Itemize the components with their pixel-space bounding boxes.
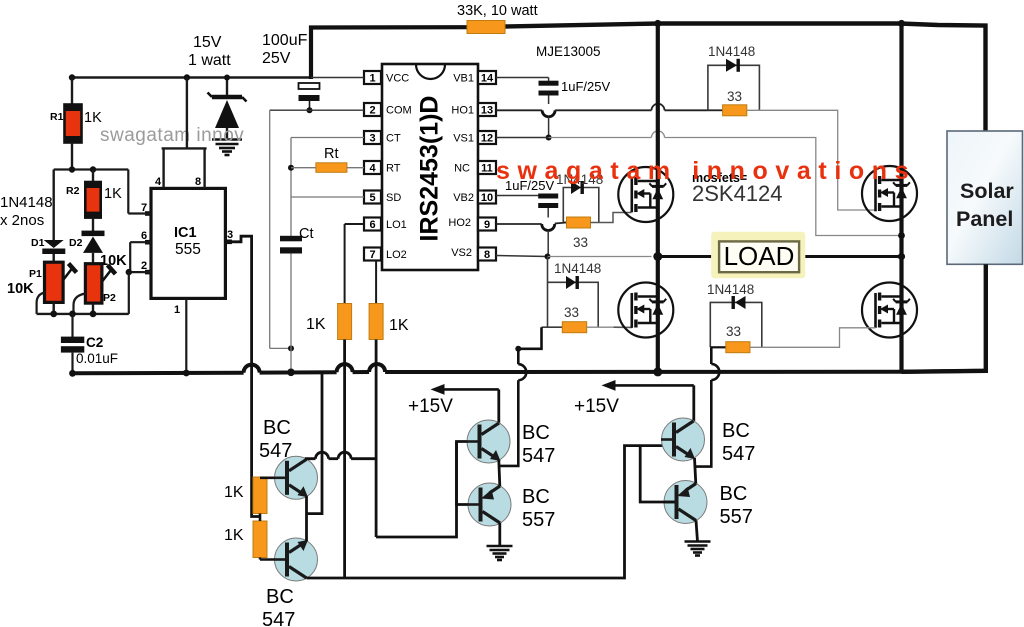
resistor 33K 10 watt	[457, 3, 538, 34]
svg-text:1: 1	[369, 73, 375, 85]
pots bottom rail y=313.9	[37, 311, 129, 318]
svg-text:P2: P2	[103, 292, 116, 304]
svg-text:1N4148: 1N4148	[708, 44, 755, 59]
svg-text:33: 33	[727, 89, 742, 104]
diode 1N4148 + resistor 33 network (M2 gate)	[708, 44, 760, 116]
svg-text:HO2: HO2	[448, 217, 471, 229]
wire base tie vertical right block	[640, 446, 674, 502]
svg-text:547: 547	[262, 609, 295, 627]
wire +15V to collector	[497, 389, 500, 423]
mosfet M3 bottom-left	[618, 283, 673, 338]
svg-text:CT: CT	[386, 133, 401, 145]
555 pins 4 and 8 bridge	[155, 78, 207, 189]
svg-text:+15V: +15V	[408, 396, 453, 417]
svg-text:+15V: +15V	[574, 396, 619, 417]
svg-text:BC: BC	[266, 586, 294, 608]
svg-text:LO2: LO2	[386, 249, 407, 261]
resistor R1 1K	[50, 78, 102, 170]
svg-text:10: 10	[481, 192, 493, 204]
wire LOAD right	[805, 255, 901, 258]
wire HO1 pin13	[496, 104, 708, 110]
wire VB2 pin10	[496, 195, 548, 197]
wire emitters junction right	[695, 458, 696, 484]
555 pin 6 wire	[130, 230, 151, 272]
chip pin boxes left	[364, 71, 381, 261]
wire M4 gate	[750, 328, 876, 348]
wire COM pin2	[270, 110, 364, 351]
transistor BC547 right	[661, 418, 755, 465]
resistor 1K on LO1	[306, 224, 364, 578]
wire +15V to collector right	[692, 385, 695, 421]
wire collector bottom-left BC547 long rail y=578	[307, 446, 673, 578]
svg-text:12: 12	[481, 133, 493, 145]
label 1N4148 x 2nos	[0, 194, 53, 229]
node dot bus/bridge	[653, 367, 662, 376]
svg-text:557: 557	[720, 506, 753, 528]
svg-text:BC: BC	[263, 417, 291, 439]
svg-text:R1: R1	[50, 111, 64, 123]
svg-text:IRS2453(1)D: IRS2453(1)D	[416, 96, 444, 242]
wire VS1 pin12	[496, 131, 905, 239]
svg-text:5: 5	[369, 192, 375, 204]
wire BC557 collector to ground	[498, 523, 501, 546]
svg-text:7: 7	[369, 249, 375, 261]
wire to D1	[54, 170, 129, 241]
diode 1N4148 + resistor 33 network (M4 gate)	[707, 282, 762, 353]
svg-text:4: 4	[155, 176, 162, 188]
zener diode 15V	[208, 75, 247, 139]
svg-text:LO1: LO1	[386, 219, 407, 231]
capacitor C2 0.01uF	[61, 314, 118, 377]
node dot 555 supply	[184, 74, 190, 80]
svg-text:Ct: Ct	[299, 226, 314, 242]
node dot R1 top	[69, 74, 75, 80]
mosfet M1 2SK4124 top-left	[618, 167, 673, 222]
label MJE13005	[536, 44, 601, 59]
svg-text:BC: BC	[522, 422, 550, 444]
svg-text:33K, 10 watt: 33K, 10 watt	[457, 3, 538, 19]
watermark swagatam innov	[100, 125, 244, 146]
capacitor Ct	[280, 226, 314, 372]
svg-text:1K: 1K	[224, 484, 244, 501]
wire emitters junction middle	[499, 460, 500, 486]
wire solar panel bottom	[902, 264, 986, 372]
wire VCC rail y=77.5	[72, 76, 311, 79]
svg-text:547: 547	[259, 440, 292, 462]
svg-text:9: 9	[484, 219, 490, 231]
svg-text:555: 555	[175, 241, 201, 258]
svg-text:547: 547	[522, 445, 555, 467]
capacitor 1uF/25V upper	[539, 79, 611, 104]
label 100uF 25V	[262, 32, 308, 67]
svg-text:BC: BC	[722, 420, 750, 442]
mosfet M2 top-right	[862, 166, 917, 221]
svg-text:Rt: Rt	[324, 146, 339, 162]
svg-text:LOAD: LOAD	[724, 241, 795, 271]
wire LO2 vertical lower + route to middle driver	[376, 442, 483, 538]
wire right bus vertical x=901.5	[898, 20, 905, 372]
svg-text:2: 2	[141, 260, 147, 272]
svg-text:COM: COM	[386, 105, 412, 117]
red watermark swagatam innovations	[496, 157, 916, 185]
svg-text:D2: D2	[69, 237, 83, 249]
wire HO2 pin9	[496, 223, 567, 225]
svg-text:SD: SD	[386, 192, 401, 204]
wire VCC pin1	[311, 77, 364, 79]
diode D2	[69, 231, 127, 269]
svg-text:1 watt: 1 watt	[188, 52, 231, 69]
svg-text:D1: D1	[31, 237, 45, 249]
mosfet M4 bottom-right	[862, 283, 917, 338]
svg-text:swagatam innovations: swagatam innovations	[496, 157, 916, 185]
IC1 555 box	[151, 188, 225, 298]
wire bus tap x=322	[307, 372, 323, 513]
wire M4 network feed from right driver	[695, 347, 720, 466]
transistor BC547 left-top	[259, 417, 318, 499]
svg-text:1K: 1K	[389, 317, 409, 334]
IC IRS2453(1)D body	[382, 64, 478, 270]
svg-text:VS2: VS2	[451, 247, 472, 259]
chip pin names	[386, 73, 412, 262]
svg-text:R2: R2	[66, 185, 80, 197]
wire hop cap lead over HO2	[542, 224, 555, 257]
svg-text:x 2nos: x 2nos	[0, 212, 44, 229]
svg-text:1K: 1K	[84, 110, 102, 126]
wire BC557 right collector to ground	[696, 521, 698, 542]
resistor 1K on LO2	[369, 261, 409, 538]
svg-text:1N4148: 1N4148	[554, 261, 601, 276]
svg-text:25V: 25V	[262, 50, 291, 67]
svg-text:33: 33	[573, 235, 588, 250]
capacitor 100uF	[299, 83, 320, 113]
svg-text:15V: 15V	[193, 34, 222, 51]
diode 1N4148 + resistor 33 network (M3 gate)	[542, 257, 602, 333]
svg-text:1K: 1K	[306, 316, 326, 333]
wire VS2 pin8	[496, 254, 652, 260]
node dot load right	[898, 253, 905, 260]
wire top bus right of 33K	[505, 24, 986, 132]
wire VB1 pin14	[496, 78, 549, 82]
svg-text:2: 2	[369, 105, 375, 117]
transistor BC557 right	[664, 481, 753, 529]
pot P2 10K	[74, 264, 117, 314]
svg-text:557: 557	[522, 509, 555, 531]
svg-text:547: 547	[722, 443, 755, 465]
svg-text:RT: RT	[386, 163, 401, 175]
transistor BC547 left-bottom	[262, 538, 318, 627]
svg-text:swagatam innov: swagatam innov	[100, 125, 244, 146]
node dot load left	[653, 252, 662, 261]
svg-text:IC1: IC1	[174, 225, 197, 241]
wire SD pin5	[291, 196, 364, 198]
svg-text:8: 8	[195, 176, 201, 188]
svg-text:Panel: Panel	[956, 207, 1013, 231]
svg-text:33: 33	[564, 305, 579, 320]
chip pin numbers left	[369, 73, 376, 262]
svg-text:NC: NC	[454, 163, 470, 175]
svg-text:C2: C2	[86, 335, 103, 350]
wire left bus vertical x=658	[654, 20, 661, 372]
svg-text:VCC: VCC	[386, 73, 409, 85]
svg-text:100uF: 100uF	[262, 32, 308, 49]
svg-text:14: 14	[481, 73, 494, 85]
svg-text:VB2: VB2	[453, 192, 474, 204]
svg-text:8: 8	[484, 249, 490, 261]
diode 1N4148 + resistor 33 network (M1 gate)	[556, 172, 603, 250]
+15V arrow middle	[408, 384, 499, 417]
555 pin 7 wire	[128, 170, 151, 215]
ground right driver	[685, 542, 711, 556]
555 pin 1 wire	[174, 298, 190, 376]
+15V arrow right	[574, 380, 694, 417]
svg-text:HO1: HO1	[451, 105, 474, 117]
node line y=169.5	[54, 166, 129, 172]
svg-text:10K: 10K	[7, 281, 34, 297]
node dot bus/COM	[287, 369, 295, 377]
svg-text:4: 4	[369, 163, 376, 175]
svg-text:Solar: Solar	[960, 179, 1014, 203]
svg-text:VB1: VB1	[453, 73, 474, 85]
resistor R2 1K	[66, 170, 122, 232]
label 15V 1 watt	[188, 34, 231, 69]
svg-text:10K: 10K	[100, 253, 127, 269]
wire LOAD left	[658, 255, 711, 258]
svg-text:0.01uF: 0.01uF	[76, 351, 118, 366]
transistor BC557 middle	[468, 483, 556, 531]
wire thick riser to top bus	[311, 27, 469, 79]
wire hop cap lead over HO1	[542, 110, 555, 140]
resistor 1K upper (base top BC547)	[224, 477, 284, 514]
svg-text:3: 3	[227, 229, 233, 241]
resistor 1K lower (base bottom BC547)	[224, 514, 284, 560]
555 pin stubs	[145, 211, 232, 274]
transistor BC547 middle	[467, 420, 556, 467]
svg-text:1N4148: 1N4148	[707, 282, 754, 297]
ground middle driver	[487, 546, 513, 560]
wire CT pin3	[288, 138, 364, 237]
svg-text:6: 6	[141, 230, 147, 242]
wire emitters junction left block	[305, 496, 308, 541]
chip pin boxes right	[478, 71, 496, 261]
555 pin 2 wire	[126, 260, 151, 314]
Solar Panel block	[947, 131, 1023, 264]
capacitor 1uF/25V lower	[505, 178, 558, 218]
pot P1 10K	[7, 254, 77, 314]
diode D1	[31, 237, 65, 254]
wire M3 network feed from middle driver	[499, 327, 542, 466]
svg-text:3: 3	[369, 133, 375, 145]
wire bottom bus	[73, 364, 987, 373]
svg-text:1K: 1K	[224, 527, 244, 544]
wire collector top-left BC547 to LO2	[306, 452, 376, 459]
wire HO2 to M1 gate	[591, 213, 632, 223]
svg-text:VS1: VS1	[453, 133, 474, 145]
wire HO1 to M2 gate	[747, 110, 876, 210]
svg-text:1N4148: 1N4148	[0, 194, 53, 211]
label mosfets= 2SK4124	[692, 171, 783, 206]
svg-text:33: 33	[726, 324, 741, 339]
ground below zener	[212, 140, 242, 156]
svg-text:6: 6	[369, 219, 375, 231]
svg-text:1uF/25V: 1uF/25V	[561, 79, 610, 94]
chip pin numbers right	[481, 73, 494, 262]
svg-text:P1: P1	[29, 268, 42, 280]
wire M3 gate	[587, 326, 632, 328]
555 pin 3 output wire	[225, 229, 260, 517]
svg-text:1K: 1K	[104, 186, 122, 202]
svg-text:BC: BC	[522, 486, 550, 508]
svg-text:MJE13005: MJE13005	[536, 44, 601, 59]
svg-text:7: 7	[141, 202, 147, 214]
svg-text:1: 1	[174, 304, 180, 316]
svg-text:BC: BC	[720, 483, 748, 505]
svg-text:13: 13	[481, 105, 493, 117]
svg-text:11: 11	[481, 163, 493, 175]
LOAD box	[711, 232, 805, 278]
resistor Rt	[291, 146, 364, 172]
